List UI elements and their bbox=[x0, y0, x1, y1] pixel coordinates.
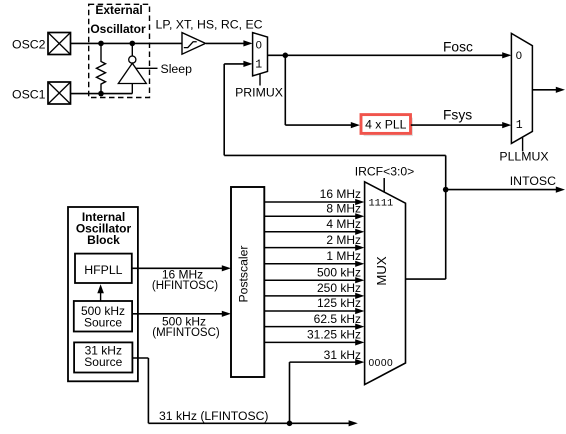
arrow LFINTOSC bbox=[349, 420, 358, 426]
svg-text:Block: Block bbox=[87, 233, 120, 247]
wire postscaler output 62.5 kHz bbox=[264, 326, 356, 328]
buffer (schmitt trigger) bbox=[182, 33, 206, 55]
svg-text:Sleep: Sleep bbox=[161, 62, 193, 76]
svg-text:8 MHz: 8 MHz bbox=[326, 202, 361, 216]
pin OSC2 crossed-box bbox=[48, 33, 71, 55]
svg-text:1: 1 bbox=[516, 119, 523, 132]
wire 31kHz into MUX bbox=[290, 361, 357, 363]
wire drop to 4xPLL bbox=[284, 55, 286, 125]
inverter sleep bubble bbox=[129, 56, 136, 63]
svg-text:HFPLL: HFPLL bbox=[84, 263, 122, 277]
arrow 125 kHz into MUX bbox=[355, 308, 364, 314]
internal oscillator block box bbox=[68, 207, 138, 381]
arrow INTOSC output bbox=[556, 187, 565, 193]
arrow PLLMUX output bbox=[556, 87, 565, 93]
svg-text:(MFINTOSC): (MFINTOSC) bbox=[152, 327, 220, 339]
svg-text:Fosc: Fosc bbox=[443, 40, 473, 55]
arrow 500kHz into Postscaler bbox=[222, 311, 231, 317]
wire 500kHz out bbox=[132, 313, 222, 315]
arrow 2 MHz into MUX bbox=[355, 245, 364, 251]
mux PRIMUX body bbox=[253, 33, 268, 76]
wire buffer to PRIMUX bbox=[206, 42, 244, 44]
wire Fsys bbox=[411, 124, 503, 126]
junction dot resistor bottom bbox=[98, 91, 104, 97]
svg-text:LP, XT, HS, RC, EC: LP, XT, HS, RC, EC bbox=[156, 17, 263, 31]
svg-text:IRCF<3:0>: IRCF<3:0> bbox=[355, 164, 415, 178]
wire riser x445.7 bbox=[445, 155, 447, 279]
wire 31kHz riser to MUX bbox=[289, 362, 291, 423]
svg-text:Source: Source bbox=[84, 315, 122, 329]
wire HFPLL 16MHz out bbox=[132, 267, 223, 269]
arrow into 4xPLL bbox=[351, 122, 360, 128]
junction dot 31kHz branch bbox=[287, 421, 293, 427]
wire to PRIMUX input 1 bbox=[224, 63, 244, 65]
arrow into PLLMUX input 0 bbox=[502, 52, 511, 58]
inverter triangle bbox=[118, 63, 146, 83]
wire INTOSC bbox=[446, 189, 558, 191]
svg-text:0: 0 bbox=[516, 50, 522, 62]
junction dot Fosc branch bbox=[283, 53, 289, 59]
arrow into PRIMUX input 1 bbox=[243, 61, 252, 67]
svg-text:1111: 1111 bbox=[369, 197, 394, 209]
arrow 16MHz into Postscaler bbox=[222, 265, 231, 271]
wire postscaler output 16 MHz bbox=[264, 201, 356, 203]
svg-text:Oscillator: Oscillator bbox=[90, 22, 146, 36]
svg-text:PRIMUX: PRIMUX bbox=[235, 86, 283, 100]
wire PLLMUX output bbox=[532, 89, 558, 91]
arrow 16 MHz into MUX bbox=[355, 199, 364, 205]
svg-text:OSC1: OSC1 bbox=[12, 87, 46, 101]
arrow into PRIMUX input 0 bbox=[243, 40, 252, 46]
arrow 8 MHz into MUX bbox=[355, 213, 364, 219]
wire inverter bubble to OSC2 line bbox=[131, 43, 133, 56]
wire OSC1 to inverter stub bbox=[71, 93, 133, 95]
wire postscaler output 8 MHz bbox=[264, 215, 356, 217]
svg-text:500 kHz: 500 kHz bbox=[317, 265, 361, 279]
arrow 4 MHz into MUX bbox=[355, 229, 364, 235]
svg-text:External: External bbox=[95, 3, 142, 17]
svg-text:62.5 kHz: 62.5 kHz bbox=[314, 312, 361, 326]
block 31 kHz Source bbox=[74, 342, 132, 372]
arrow 31kHz into MUX bbox=[355, 359, 364, 365]
svg-text:0: 0 bbox=[256, 39, 262, 51]
svg-text:31.25 kHz: 31.25 kHz bbox=[307, 328, 361, 342]
PLLMUX bottom stub bbox=[522, 138, 524, 152]
mux PLLMUX body bbox=[511, 33, 532, 143]
junction dot resistor top bbox=[98, 41, 104, 47]
wire postscaler output 250 kHz bbox=[264, 295, 356, 297]
wire Sleep bbox=[136, 67, 158, 69]
svg-text:16 MHz: 16 MHz bbox=[320, 187, 361, 201]
4xPLL shadow bbox=[364, 118, 414, 137]
junction dot INTOSC branch bbox=[443, 187, 449, 193]
wire MUX output bbox=[406, 278, 446, 280]
block 4 x PLL (red highlight) bbox=[361, 115, 411, 134]
wire 500kHz to HFPLL bbox=[100, 293, 102, 302]
wire postscaler output 2 MHz bbox=[264, 247, 356, 249]
svg-text:1 MHz: 1 MHz bbox=[326, 249, 361, 263]
PRIMUX bottom stub bbox=[259, 74, 261, 86]
wire 31kHz drop bbox=[147, 358, 149, 423]
svg-text:0000: 0000 bbox=[369, 358, 394, 369]
junction dot inverter top bbox=[130, 41, 136, 47]
svg-text:Fsys: Fsys bbox=[443, 108, 472, 123]
inverter base stub bbox=[131, 84, 133, 94]
svg-text:4 x PLL: 4 x PLL bbox=[365, 118, 407, 132]
svg-text:Source: Source bbox=[84, 355, 122, 369]
wire riser to PRIMUX 1 bbox=[223, 64, 225, 155]
arrow into PLLMUX input 1 bbox=[502, 122, 511, 128]
wire postscaler output 4 MHz bbox=[264, 231, 356, 233]
block Postscaler bbox=[231, 187, 264, 377]
arrow 500 kHz into MUX bbox=[355, 277, 364, 283]
wire postscaler output 31.25 kHz bbox=[264, 341, 356, 343]
svg-text:OSC2: OSC2 bbox=[12, 37, 46, 51]
arrow 31.25 kHz into MUX bbox=[355, 339, 364, 345]
wire postscaler output 500 kHz bbox=[264, 279, 356, 281]
svg-text:Postscaler: Postscaler bbox=[237, 246, 251, 303]
pin OSC1 crossed-box bbox=[48, 82, 71, 104]
svg-text:PLLMUX: PLLMUX bbox=[499, 150, 548, 164]
svg-text:2 MHz: 2 MHz bbox=[326, 233, 361, 247]
buffer hysteresis glyph bbox=[184, 42, 197, 48]
resistor (external oscillator feedback) bbox=[97, 43, 106, 93]
mux MUX body bbox=[365, 182, 406, 385]
svg-text:250 kHz: 250 kHz bbox=[317, 281, 361, 295]
svg-text:MUX: MUX bbox=[374, 256, 389, 286]
svg-text:125 kHz: 125 kHz bbox=[317, 296, 361, 310]
wire internal clock bus horizontal y155 bbox=[224, 154, 446, 156]
wire into 4xPLL bbox=[285, 124, 351, 126]
arrow 250 kHz into MUX bbox=[355, 293, 364, 299]
svg-text:31 kHz (LFINTOSC): 31 kHz (LFINTOSC) bbox=[159, 409, 268, 423]
wire 31kHz source out bbox=[132, 357, 148, 359]
wire IRCF control stub bbox=[383, 178, 385, 193]
arrow 1 MHz into MUX bbox=[355, 261, 364, 267]
svg-text:(HFINTOSC): (HFINTOSC) bbox=[152, 280, 218, 292]
svg-text:INTOSC: INTOSC bbox=[510, 174, 556, 188]
block HFPLL bbox=[75, 254, 132, 283]
wire postscaler output 125 kHz bbox=[264, 310, 356, 312]
wire 31kHz LFINTOSC horizontal bbox=[148, 422, 349, 424]
block 500 kHz Source bbox=[74, 301, 132, 332]
svg-text:4 MHz: 4 MHz bbox=[326, 217, 361, 231]
wire postscaler output 1 MHz bbox=[264, 263, 356, 265]
svg-text:1: 1 bbox=[255, 59, 262, 72]
arrow 62.5 kHz into MUX bbox=[355, 324, 364, 330]
wire OSC2 to buffer bbox=[71, 42, 183, 44]
svg-text:31 kHz: 31 kHz bbox=[324, 348, 361, 362]
external oscillator dashed box bbox=[89, 4, 150, 97]
wire PRIMUX output / Fosc bbox=[268, 54, 503, 56]
arrow 500kHz into HFPLL bbox=[97, 284, 104, 293]
